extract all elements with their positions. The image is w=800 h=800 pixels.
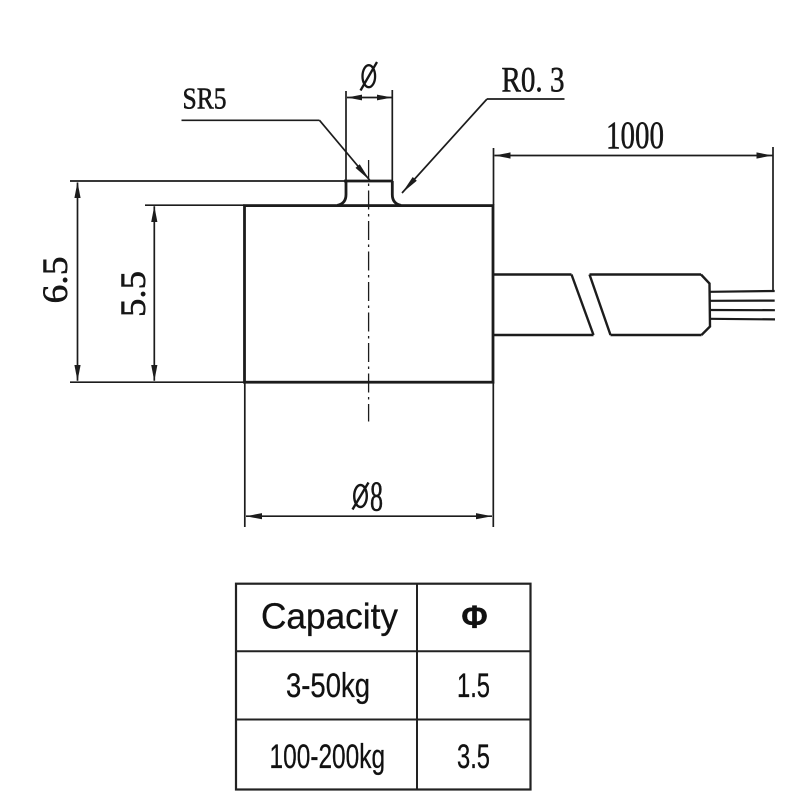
svg-text:Capacity: Capacity [261,596,398,637]
svg-text:Φ: Φ [461,599,487,635]
svg-text:6.5: 6.5 [35,257,75,304]
svg-text:1000: 1000 [606,114,664,157]
svg-text:5.5: 5.5 [113,271,153,317]
svg-text:3.5: 3.5 [457,738,490,776]
svg-text:SR5: SR5 [183,81,227,116]
svg-text:1.5: 1.5 [457,667,490,705]
svg-text:8: 8 [370,474,383,520]
svg-text:3-50kg: 3-50kg [286,667,370,705]
svg-text:100-200kg: 100-200kg [270,738,386,776]
svg-text:R0. 3: R0. 3 [502,60,565,100]
